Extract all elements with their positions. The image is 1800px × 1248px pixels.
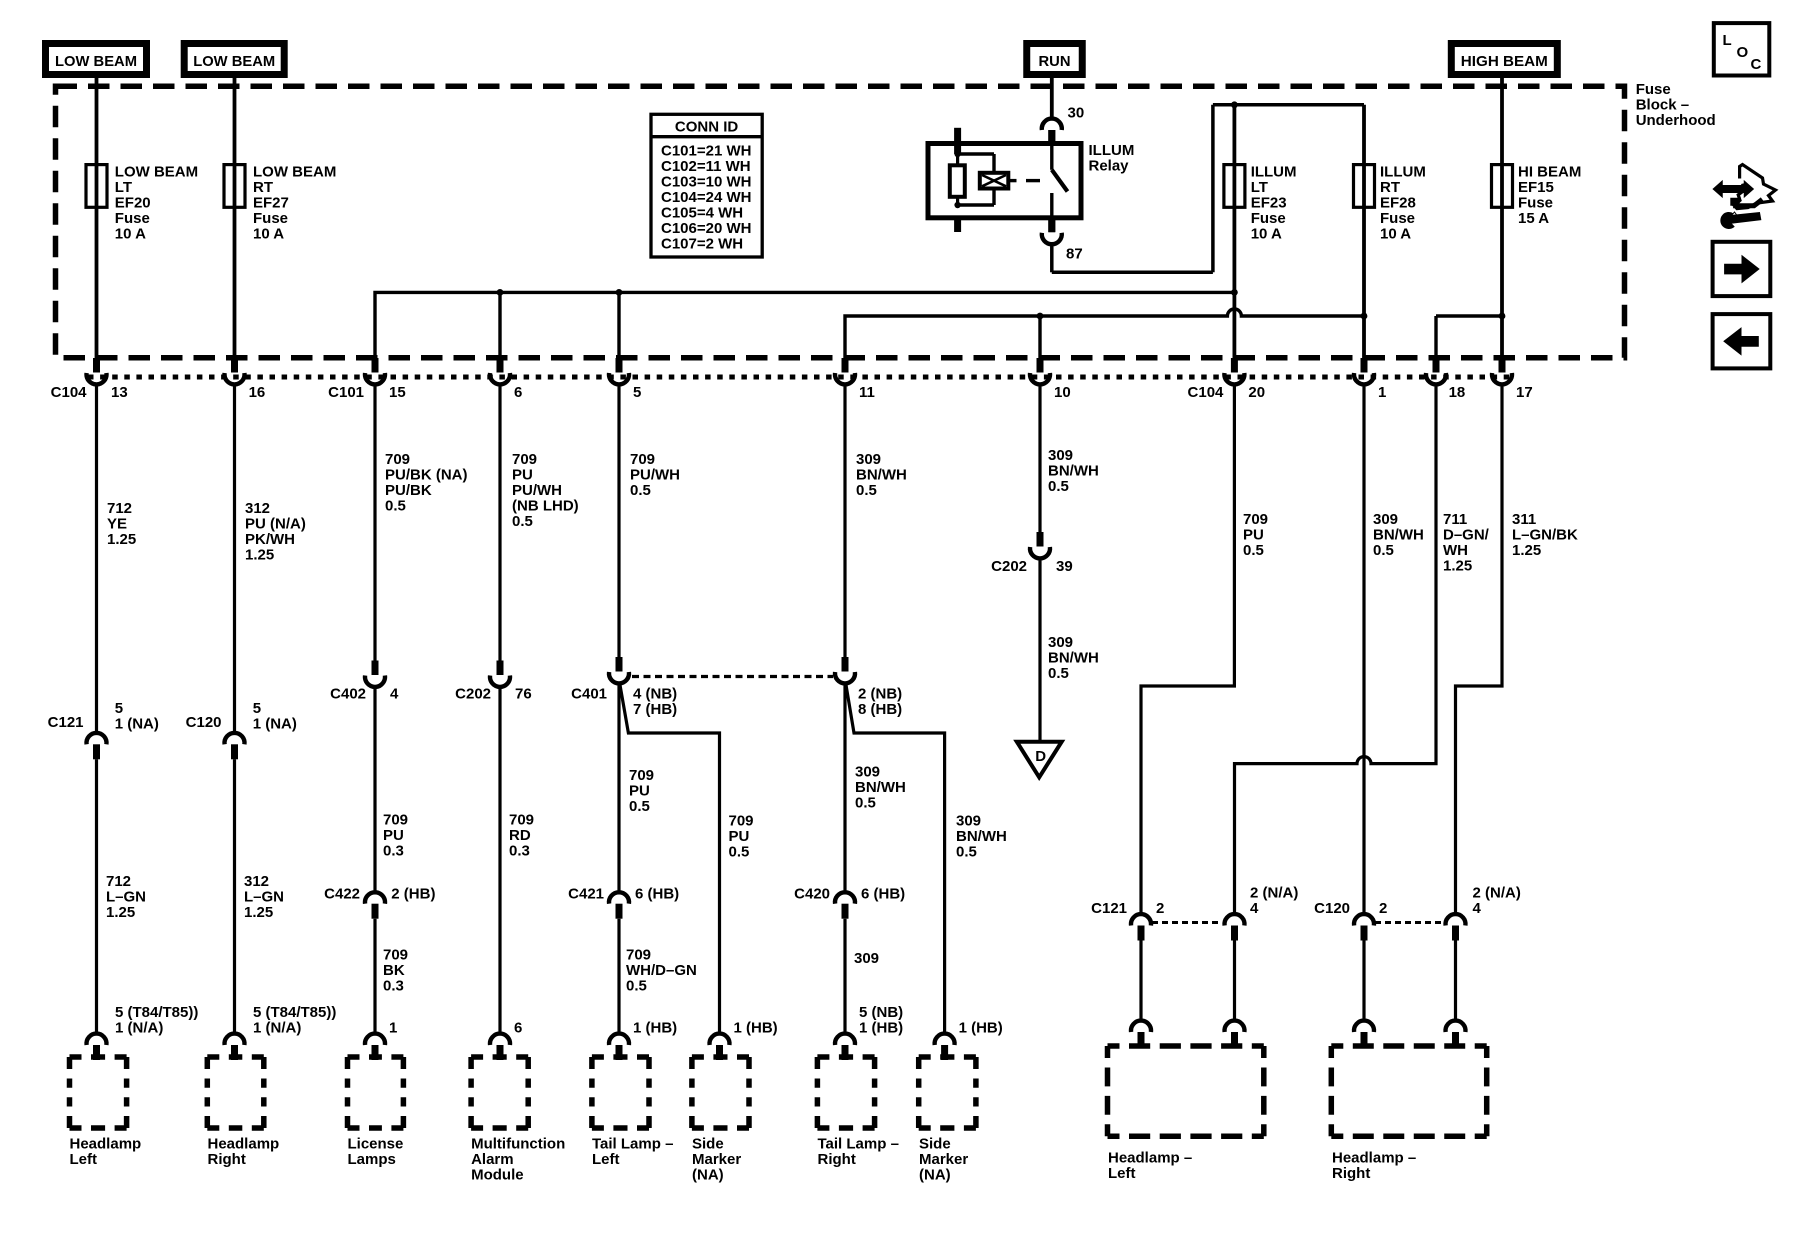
svg-text:C402: C402	[330, 685, 366, 702]
svg-text:309: 309	[854, 950, 879, 967]
svg-text:2 (N/A): 2 (N/A)	[1250, 885, 1298, 902]
svg-text:C101=21 WH: C101=21 WH	[661, 142, 751, 159]
svg-text:Tail Lamp –: Tail Lamp –	[592, 1136, 673, 1153]
svg-text:17: 17	[1516, 384, 1533, 401]
svg-text:EF27: EF27	[253, 194, 289, 211]
svg-text:D: D	[1035, 748, 1046, 765]
svg-text:C: C	[1751, 56, 1762, 73]
svg-text:Block –: Block –	[1636, 97, 1689, 114]
svg-text:10 A: 10 A	[1380, 225, 1411, 242]
svg-text:0.5: 0.5	[1373, 542, 1394, 559]
svg-text:0.5: 0.5	[856, 482, 877, 499]
svg-text:Tail Lamp –: Tail Lamp –	[818, 1136, 899, 1153]
svg-text:PU: PU	[629, 783, 650, 800]
svg-text:6: 6	[514, 384, 522, 401]
svg-text:CONN ID: CONN ID	[675, 119, 739, 136]
svg-text:30: 30	[1068, 105, 1085, 122]
svg-text:RUN: RUN	[1039, 53, 1071, 70]
svg-text:1 (HB): 1 (HB)	[734, 1020, 778, 1037]
svg-text:Side: Side	[919, 1136, 951, 1153]
svg-text:8 (HB): 8 (HB)	[858, 701, 902, 718]
svg-text:0.3: 0.3	[383, 978, 404, 995]
svg-text:1: 1	[1378, 384, 1386, 401]
svg-text:BN/WH: BN/WH	[956, 828, 1007, 845]
svg-text:RD: RD	[509, 827, 531, 844]
svg-text:0.5: 0.5	[630, 482, 651, 499]
svg-text:PK/WH: PK/WH	[245, 531, 295, 548]
svg-text:C104: C104	[1188, 384, 1225, 401]
svg-text:1.25: 1.25	[244, 904, 273, 921]
svg-text:13: 13	[111, 384, 128, 401]
svg-text:2 (HB): 2 (HB)	[391, 885, 435, 902]
svg-text:2 (NB): 2 (NB)	[858, 685, 902, 702]
svg-text:2: 2	[1379, 900, 1387, 917]
svg-text:0.5: 0.5	[629, 798, 650, 815]
svg-text:C202: C202	[455, 685, 491, 702]
svg-text:7 (HB): 7 (HB)	[633, 701, 677, 718]
svg-text:0.5: 0.5	[626, 978, 647, 995]
svg-text:10 A: 10 A	[253, 225, 284, 242]
svg-text:Right: Right	[208, 1151, 246, 1168]
svg-text:Marker: Marker	[692, 1151, 741, 1168]
svg-text:0.5: 0.5	[1048, 478, 1069, 495]
svg-text:Underhood: Underhood	[1636, 112, 1716, 129]
svg-text:C105=4 WH: C105=4 WH	[661, 204, 743, 221]
svg-text:309: 309	[855, 764, 880, 781]
svg-text:EF28: EF28	[1380, 194, 1416, 211]
svg-text:PU/WH: PU/WH	[630, 467, 680, 484]
svg-text:Multifunction: Multifunction	[471, 1136, 565, 1153]
svg-text:BN/WH: BN/WH	[1373, 527, 1424, 544]
svg-text:309: 309	[856, 451, 881, 468]
svg-text:0.3: 0.3	[509, 843, 530, 860]
svg-text:ILLUM: ILLUM	[1089, 142, 1135, 159]
svg-text:LOW BEAM: LOW BEAM	[115, 163, 198, 180]
svg-text:L–GN: L–GN	[244, 889, 284, 906]
svg-text:C420: C420	[794, 885, 830, 902]
svg-text:YE: YE	[107, 516, 127, 533]
svg-text:5 (T84/T85)): 5 (T84/T85))	[115, 1004, 198, 1021]
svg-text:BN/WH: BN/WH	[1048, 463, 1099, 480]
svg-text:4: 4	[1473, 900, 1482, 917]
svg-text:PU: PU	[729, 828, 750, 845]
svg-text:4: 4	[1250, 900, 1259, 917]
svg-text:0.5: 0.5	[512, 513, 533, 530]
svg-text:0.5: 0.5	[1243, 542, 1264, 559]
svg-text:PU/BK: PU/BK	[385, 482, 432, 499]
svg-text:ILLUM: ILLUM	[1380, 163, 1426, 180]
svg-text:Module: Module	[471, 1167, 523, 1184]
svg-text:EF23: EF23	[1251, 194, 1287, 211]
svg-text:1 (HB): 1 (HB)	[633, 1020, 677, 1037]
svg-text:RT: RT	[253, 179, 273, 196]
svg-text:BN/WH: BN/WH	[855, 779, 906, 796]
svg-text:WH: WH	[1443, 542, 1468, 559]
svg-text:D–GN/: D–GN/	[1443, 527, 1490, 544]
svg-text:1 (HB): 1 (HB)	[959, 1020, 1003, 1037]
svg-text:O: O	[1737, 44, 1749, 61]
svg-text:76: 76	[515, 685, 532, 702]
svg-text:Right: Right	[1332, 1165, 1370, 1182]
svg-text:0.5: 0.5	[1048, 665, 1069, 682]
svg-text:1.25: 1.25	[106, 904, 135, 921]
svg-text:5: 5	[253, 700, 261, 717]
svg-text:6: 6	[514, 1020, 522, 1037]
svg-text:709: 709	[512, 451, 537, 468]
svg-text:C106=20 WH: C106=20 WH	[661, 220, 751, 237]
svg-text:C103=10 WH: C103=10 WH	[661, 173, 751, 190]
svg-text:709: 709	[383, 947, 408, 964]
svg-text:LT: LT	[1251, 179, 1268, 196]
svg-text:ILLUM: ILLUM	[1251, 163, 1297, 180]
svg-text:6 (HB): 6 (HB)	[861, 885, 905, 902]
svg-text:1 (N/A): 1 (N/A)	[253, 1020, 301, 1037]
svg-text:Fuse: Fuse	[1380, 210, 1415, 227]
svg-text:1: 1	[389, 1020, 397, 1037]
svg-text:712: 712	[107, 500, 132, 517]
svg-text:Side: Side	[692, 1136, 724, 1153]
svg-text:(NA): (NA)	[919, 1167, 951, 1184]
svg-text:EF15: EF15	[1518, 179, 1554, 196]
svg-text:EF20: EF20	[115, 194, 151, 211]
svg-text:709: 709	[509, 812, 534, 829]
svg-text:5 (T84/T85)): 5 (T84/T85))	[253, 1004, 336, 1021]
svg-text:C120: C120	[1314, 900, 1350, 917]
svg-text:WH/D–GN: WH/D–GN	[626, 962, 697, 979]
svg-text:5 (NB): 5 (NB)	[859, 1004, 903, 1021]
svg-text:Alarm: Alarm	[471, 1151, 514, 1168]
svg-text:709: 709	[1243, 511, 1268, 528]
svg-text:0.5: 0.5	[729, 844, 750, 861]
svg-text:BK: BK	[383, 962, 405, 979]
svg-text:2: 2	[1156, 900, 1164, 917]
svg-text:HI BEAM: HI BEAM	[1518, 163, 1581, 180]
svg-text:BN/WH: BN/WH	[1048, 650, 1099, 667]
svg-text:C104: C104	[51, 384, 88, 401]
svg-text:6 (HB): 6 (HB)	[635, 885, 679, 902]
svg-text:0.5: 0.5	[956, 844, 977, 861]
svg-text:C421: C421	[568, 885, 604, 902]
svg-text:709: 709	[383, 812, 408, 829]
svg-text:C101: C101	[328, 384, 364, 401]
svg-text:C120: C120	[186, 714, 222, 731]
svg-text:0.5: 0.5	[855, 795, 876, 812]
svg-text:4: 4	[390, 685, 399, 702]
svg-text:709: 709	[630, 451, 655, 468]
svg-text:L–GN/BK: L–GN/BK	[1512, 527, 1578, 544]
svg-text:87: 87	[1066, 246, 1083, 263]
svg-text:C102=11 WH: C102=11 WH	[661, 158, 751, 175]
svg-text:712: 712	[106, 873, 131, 890]
svg-text:Left: Left	[70, 1151, 98, 1168]
svg-text:309: 309	[1048, 634, 1073, 651]
svg-text:1.25: 1.25	[107, 531, 136, 548]
svg-text:Lamps: Lamps	[348, 1151, 396, 1168]
svg-text:Fuse: Fuse	[1251, 210, 1286, 227]
svg-text:License: License	[348, 1136, 404, 1153]
svg-text:LOW BEAM: LOW BEAM	[193, 53, 275, 70]
svg-text:C107=2 WH: C107=2 WH	[661, 235, 743, 252]
svg-text:309: 309	[1373, 511, 1398, 528]
svg-text:Relay: Relay	[1089, 158, 1130, 175]
svg-text:PU/WH: PU/WH	[512, 482, 562, 499]
svg-text:5: 5	[115, 700, 123, 717]
svg-text:C202: C202	[991, 558, 1027, 575]
svg-text:312: 312	[244, 873, 269, 890]
svg-text:10 A: 10 A	[115, 225, 146, 242]
svg-text:1.25: 1.25	[1512, 542, 1541, 559]
svg-text:0.5: 0.5	[385, 498, 406, 515]
svg-text:C401: C401	[571, 685, 607, 702]
svg-text:PU: PU	[1243, 527, 1264, 544]
svg-text:15 A: 15 A	[1518, 210, 1549, 227]
svg-text:L: L	[1723, 32, 1732, 49]
svg-text:5: 5	[633, 384, 641, 401]
svg-text:4 (NB): 4 (NB)	[633, 685, 677, 702]
svg-text:1 (N/A): 1 (N/A)	[115, 1020, 163, 1037]
svg-text:LOW BEAM: LOW BEAM	[55, 53, 137, 70]
svg-text:C121: C121	[48, 714, 84, 731]
svg-text:15: 15	[389, 384, 406, 401]
svg-text:11: 11	[859, 384, 875, 401]
svg-text:Left: Left	[592, 1151, 620, 1168]
svg-text:C104=24 WH: C104=24 WH	[661, 189, 751, 206]
svg-text:Fuse: Fuse	[115, 210, 150, 227]
svg-text:Fuse: Fuse	[1636, 81, 1671, 98]
svg-text:309: 309	[956, 813, 981, 830]
svg-text:Marker: Marker	[919, 1151, 968, 1168]
svg-text:Headlamp –: Headlamp –	[1108, 1150, 1192, 1167]
svg-text:311: 311	[1512, 511, 1536, 528]
svg-text:39: 39	[1056, 558, 1073, 575]
svg-text:709: 709	[729, 813, 754, 830]
svg-text:C121: C121	[1091, 900, 1127, 917]
svg-text:PU/BK (NA): PU/BK (NA)	[385, 467, 468, 484]
svg-text:10: 10	[1054, 384, 1071, 401]
svg-text:(NA): (NA)	[692, 1167, 724, 1184]
svg-text:312: 312	[245, 500, 270, 517]
svg-text:LT: LT	[115, 179, 132, 196]
svg-text:709: 709	[629, 767, 654, 784]
svg-text:LOW BEAM: LOW BEAM	[253, 163, 336, 180]
svg-text:C422: C422	[324, 885, 360, 902]
svg-text:709: 709	[385, 451, 410, 468]
svg-text:Headlamp: Headlamp	[208, 1136, 280, 1153]
svg-text:709: 709	[626, 947, 651, 964]
svg-text:(NB LHD): (NB LHD)	[512, 498, 579, 515]
svg-text:PU (N/A): PU (N/A)	[245, 516, 306, 533]
svg-text:Right: Right	[818, 1151, 856, 1168]
svg-text:711: 711	[1443, 511, 1467, 528]
svg-text:Fuse: Fuse	[253, 210, 288, 227]
svg-text:RT: RT	[1380, 179, 1400, 196]
svg-text:Headlamp –: Headlamp –	[1332, 1150, 1416, 1167]
svg-text:10 A: 10 A	[1251, 225, 1282, 242]
svg-text:18: 18	[1449, 384, 1466, 401]
svg-text:Fuse: Fuse	[1518, 194, 1553, 211]
svg-text:1 (NA): 1 (NA)	[115, 716, 159, 733]
svg-text:L–GN: L–GN	[106, 889, 146, 906]
svg-text:20: 20	[1248, 384, 1265, 401]
svg-text:1.25: 1.25	[1443, 558, 1472, 575]
svg-text:16: 16	[249, 384, 266, 401]
svg-text:1 (NA): 1 (NA)	[253, 716, 297, 733]
svg-text:1.25: 1.25	[245, 547, 274, 564]
svg-text:PU: PU	[512, 467, 533, 484]
svg-text:1 (HB): 1 (HB)	[859, 1020, 903, 1037]
svg-text:Headlamp: Headlamp	[70, 1136, 142, 1153]
svg-text:BN/WH: BN/WH	[856, 467, 907, 484]
svg-text:309: 309	[1048, 447, 1073, 464]
svg-text:HIGH BEAM: HIGH BEAM	[1461, 53, 1548, 70]
svg-text:PU: PU	[383, 827, 404, 844]
svg-text:0.3: 0.3	[383, 843, 404, 860]
svg-text:Left: Left	[1108, 1165, 1136, 1182]
svg-text:2 (N/A): 2 (N/A)	[1473, 885, 1521, 902]
